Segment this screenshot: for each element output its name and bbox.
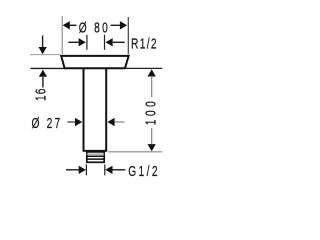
- dim G1/2 extension line left: [85, 164, 87, 175]
- dim 100 lower arrow (down): [151, 128, 153, 144]
- svg-text:R1/2: R1/2: [131, 36, 157, 52]
- dim 100 upper arrow (up): [148, 69, 156, 76]
- thread block G1/2: [87, 152, 104, 162]
- dim Ø27 line + arrows: [68, 121, 76, 123]
- dim 16 extension bottom (black): [31, 67, 65, 69]
- dim R1/2 line + arrows: [68, 41, 78, 43]
- dim Ø80 extension line left: [61, 16, 63, 54]
- dim Ø80 line + arrows: [70, 24, 77, 26]
- dim 16 lower arrow (up): [39, 70, 47, 77]
- dim 100 extension bottom (gray): [108, 151, 162, 153]
- dim 100 extension top: [126, 67, 162, 69]
- dim Ø80 extension line right: [127, 17, 129, 54]
- pipe bottom shoulder: [83, 150, 108, 152]
- flange (ceiling escutcheon, side view trapezoid): [61, 56, 128, 68]
- dim G1/2 line + arrows: [66, 169, 79, 171]
- svg-text:16: 16: [33, 89, 49, 101]
- svg-text:G1/2: G1/2: [128, 163, 157, 179]
- dim 16 upper arrow (down): [42, 35, 44, 47]
- svg-text:100: 100: [143, 101, 159, 125]
- wire pipe right: [105, 69, 107, 151]
- wire pipe left: [83, 69, 85, 151]
- dim 16 extension top (gray): [30, 54, 61, 56]
- dim R1/2 extension line right: [104, 35, 106, 50]
- dim G1/2 extension line right: [104, 164, 106, 175]
- dim R1/2 extension line left: [86, 35, 88, 50]
